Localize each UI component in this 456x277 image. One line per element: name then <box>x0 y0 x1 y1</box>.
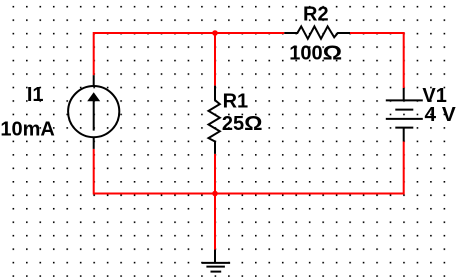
svg-text:100Ω: 100Ω <box>289 43 342 65</box>
svg-text:4 V: 4 V <box>425 104 456 126</box>
svg-text:I1: I1 <box>27 84 44 106</box>
svg-text:10mA: 10mA <box>0 119 54 141</box>
svg-text:R2: R2 <box>303 4 329 26</box>
svg-text:25Ω: 25Ω <box>222 113 263 135</box>
svg-text:R1: R1 <box>223 91 249 113</box>
